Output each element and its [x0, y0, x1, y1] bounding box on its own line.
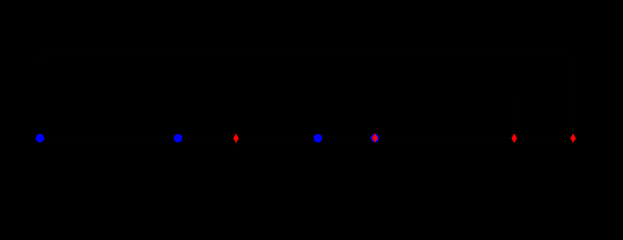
node D1 (red diamond terminal) [233, 134, 239, 143]
node D2 (red diamond terminal, over N4) [372, 133, 378, 142]
node D4 (red diamond terminal) [570, 134, 576, 143]
node N1 (blue circle terminal) [36, 134, 45, 143]
wire: top rail [40, 54, 573, 138]
node N4 (blue circle terminal, under D2) [371, 134, 380, 143]
wire: riser from node N1 [39, 60, 41, 138]
resistor R2 [315, 98, 321, 138]
node N2 (blue circle terminal) [174, 134, 183, 143]
battery V1 [30, 54, 50, 60]
wire: bottom rail (net 0), black-on-black as in source [40, 137, 573, 139]
resistor R1 [175, 98, 181, 138]
node N3 (blue circle terminal) [314, 134, 323, 143]
node D3 (red diamond terminal) [511, 134, 517, 143]
capacitor C1 [508, 100, 520, 138]
ground [230, 138, 242, 153]
